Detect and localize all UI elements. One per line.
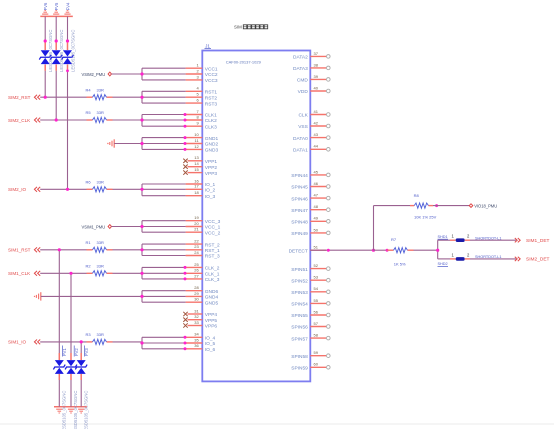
svg-text:33R: 33R [97, 87, 104, 92]
svg-text:R4: R4 [86, 87, 92, 92]
pin 52 SPIN51 [291, 263, 330, 273]
svg-text:21: 21 [194, 227, 199, 232]
svg-text:FV5: FV5 [54, 2, 59, 10]
svg-text:60: 60 [314, 362, 319, 367]
svg-text:LESD5105_0C7SGNC: LESD5105_0C7SGNC [62, 391, 67, 429]
svg-text:16: 16 [194, 178, 199, 183]
svg-text:SPIN52: SPIN52 [291, 278, 308, 284]
svg-text:SPIN58: SPIN58 [291, 354, 308, 360]
wire [112, 73, 143, 75]
TVS diode FV6 LESD5105_0C7SGNC [39, 30, 53, 72]
svg-text:R6: R6 [86, 180, 92, 185]
svg-text:29: 29 [194, 291, 199, 296]
pin 47 SPIN46 [291, 193, 330, 203]
svg-text:VCC_2: VCC_2 [205, 230, 221, 236]
wire [140, 221, 185, 233]
pin 40 VDD [298, 85, 330, 95]
pin 41 CLK [298, 109, 330, 119]
svg-text:14: 14 [194, 161, 199, 166]
pin 43 DATA0 [293, 132, 330, 142]
svg-text:7: 7 [196, 109, 199, 114]
svg-text:SIM2_RST: SIM2_RST [8, 95, 31, 100]
ground [34, 292, 41, 300]
svg-text:CLK3: CLK3 [205, 124, 217, 130]
svg-text:6: 6 [196, 98, 199, 103]
wire [140, 91, 185, 103]
pin 51 DETECT [289, 245, 327, 255]
svg-text:VIO18_PMU: VIO18_PMU [474, 203, 497, 208]
pin 3 VCC3 [186, 74, 218, 84]
svg-text:57: 57 [314, 321, 319, 326]
svg-text:SIM2_DET: SIM2_DET [526, 257, 550, 263]
svg-text:LESD5105_0C7SGNC: LESD5105_0C7SGNC [71, 30, 76, 72]
svg-text:DATA3: DATA3 [293, 66, 308, 72]
svg-text:VPP2: VPP2 [205, 165, 218, 171]
wire DETECT [310, 249, 388, 252]
svg-text:43: 43 [314, 132, 319, 137]
svg-text:10K 1% 25V: 10K 1% 25V [414, 215, 437, 220]
svg-text:GND4: GND4 [205, 295, 219, 301]
pin 18 IO_3 [186, 190, 216, 200]
wire [414, 249, 438, 251]
svg-text:SPIN59: SPIN59 [291, 366, 308, 372]
svg-text:LESD5105_0C7SGNC: LESD5105_0C7SGNC [83, 391, 88, 429]
svg-text:IO_6: IO_6 [205, 347, 216, 353]
wire [113, 188, 143, 190]
svg-text:47: 47 [314, 193, 319, 198]
wire [140, 113, 186, 128]
svg-text:SPIN48: SPIN48 [291, 220, 308, 226]
pin 7 CLK1 [186, 109, 218, 119]
svg-text:DATA0: DATA0 [293, 136, 308, 142]
wire [373, 206, 375, 251]
wire [112, 226, 143, 228]
svg-text:2: 2 [467, 252, 470, 257]
svg-text:R3: R3 [86, 332, 92, 337]
svg-text:VPP3: VPP3 [205, 171, 218, 177]
resistor R1 33R [86, 240, 113, 252]
pin 27 CLK_3 [186, 273, 220, 283]
ferrite bead SHD1 SHORTDOT-L1 [438, 234, 502, 242]
pin 6 RST3 [186, 98, 218, 108]
net label SIM1_DET [515, 238, 550, 244]
svg-text:SIM2_CLK: SIM2_CLK [8, 118, 31, 123]
svg-text:48: 48 [314, 204, 319, 209]
wire [433, 204, 469, 207]
wire [113, 119, 143, 121]
wire [140, 266, 186, 281]
designator FV6 [43, 2, 48, 10]
part number CAF00-20137-1029 [226, 60, 262, 65]
svg-text:38: 38 [314, 62, 319, 67]
pin 59 SPIN58 [291, 350, 330, 360]
pin 37 DATA2 [293, 51, 330, 61]
net label SIM2_CLK [8, 118, 40, 123]
svg-text:SPIN46: SPIN46 [291, 196, 308, 202]
svg-text:IO_4: IO_4 [205, 336, 216, 342]
svg-text:32: 32 [194, 314, 199, 319]
pin 53 SPIN52 [291, 275, 330, 285]
svg-text:LESD5105_0C7SGNC: LESD5105_0C7SGNC [73, 391, 78, 429]
pin 2 VCC2 [186, 68, 218, 78]
svg-text:55: 55 [314, 298, 319, 303]
svg-text:28: 28 [194, 285, 199, 290]
svg-text:2: 2 [196, 68, 199, 73]
svg-text:RST2: RST2 [205, 95, 218, 101]
svg-text:35: 35 [194, 337, 199, 342]
pin 10 GND1 [186, 132, 219, 142]
svg-text:R5: R5 [86, 110, 92, 115]
pin 30 GND5 [186, 297, 219, 307]
pin 17 IO_2 [186, 184, 216, 194]
svg-text:GND6: GND6 [205, 289, 219, 295]
TVS diode FV1 LESD5105_0C7SGNC [53, 346, 67, 429]
wire [55, 16, 58, 120]
svg-text:IO_2: IO_2 [205, 188, 216, 194]
svg-text:R8: R8 [414, 193, 420, 198]
pin 12 GND3 [186, 144, 219, 154]
svg-text:59: 59 [314, 350, 319, 355]
svg-text:J1: J1 [205, 44, 210, 49]
svg-text:SHD2: SHD2 [438, 262, 448, 266]
pin 36 IO_6 [186, 343, 216, 353]
svg-text:13: 13 [194, 155, 199, 160]
svg-text:SIM1_RST: SIM1_RST [8, 248, 31, 253]
pin 21 VCC_2 [186, 227, 221, 237]
svg-text:SPIN45: SPIN45 [291, 185, 308, 191]
pin 45 SPIN44 [291, 169, 330, 179]
wire [0, 423, 554, 425]
pin 24 RST_3 [186, 250, 220, 260]
svg-text:33R: 33R [97, 240, 104, 245]
svg-text:SIM2_IO: SIM2_IO [8, 187, 27, 192]
pin 57 SPIN56 [291, 321, 330, 331]
wire [58, 250, 60, 407]
node FV4 pin2 [66, 69, 69, 72]
designator FV5 [54, 2, 59, 10]
svg-text:RST_3: RST_3 [205, 254, 220, 260]
ground [40, 11, 73, 17]
svg-text:4: 4 [196, 86, 199, 91]
svg-text:33R: 33R [97, 332, 104, 337]
svg-text:CLK_2: CLK_2 [205, 266, 220, 272]
wire [41, 295, 142, 297]
pin 1 VCC1 [186, 63, 218, 73]
svg-text:GND5: GND5 [205, 300, 219, 306]
pin 4 RST1 [186, 86, 218, 96]
svg-text:FV4: FV4 [65, 2, 70, 10]
pin 11 GND2 [186, 138, 219, 148]
svg-text:41: 41 [314, 109, 319, 114]
wire [140, 336, 186, 351]
svg-text:SPIN47: SPIN47 [291, 208, 308, 214]
svg-text:11: 11 [195, 138, 200, 143]
svg-text:VSS: VSS [298, 124, 308, 130]
wire [66, 16, 69, 189]
pin 14 VPP2 [183, 161, 217, 171]
svg-text:SPIN51: SPIN51 [291, 267, 308, 273]
pin 55 SPIN54 [291, 298, 330, 308]
svg-text:SIM1_CLK: SIM1_CLK [8, 271, 31, 276]
wire [40, 96, 86, 99]
wire [140, 244, 185, 255]
wire [470, 258, 516, 260]
svg-text:25: 25 [194, 262, 199, 267]
svg-text:GND3: GND3 [205, 148, 219, 154]
pin 56 SPIN55 [291, 309, 330, 319]
resistor R3 33R [86, 332, 113, 344]
svg-text:DATA1: DATA1 [293, 148, 308, 154]
svg-text:CAF00-20137-1029: CAF00-20137-1029 [226, 60, 262, 65]
svg-text:R2: R2 [86, 264, 92, 269]
svg-text:56: 56 [314, 309, 319, 314]
wire [374, 205, 411, 207]
svg-text:51: 51 [314, 245, 319, 250]
net label SIM1_RST [8, 247, 40, 252]
svg-text:40: 40 [314, 85, 319, 90]
pin 19 VCC_3 [186, 215, 221, 225]
pin 44 DATA1 [293, 144, 330, 154]
svg-text:R7: R7 [391, 237, 397, 242]
svg-text:GND2: GND2 [205, 142, 219, 148]
net label SIM2_RST [8, 95, 40, 100]
svg-text:VPP5: VPP5 [205, 318, 218, 324]
svg-text:19: 19 [194, 215, 199, 220]
svg-text:33R: 33R [97, 264, 104, 269]
wire [113, 341, 143, 343]
wire [80, 342, 82, 407]
svg-text:SPIN44: SPIN44 [291, 173, 308, 179]
pin 58 SPIN57 [291, 333, 330, 343]
pin 16 IO_1 [186, 178, 216, 188]
wire [70, 273, 72, 407]
svg-text:SIM1_DET: SIM1_DET [526, 238, 550, 244]
designator J1 [205, 44, 212, 49]
pin 29 GND4 [186, 291, 219, 301]
net label SIM1_CLK [8, 271, 40, 276]
wire [40, 248, 86, 251]
pin 49 SPIN48 [291, 216, 330, 226]
svg-text:58: 58 [314, 333, 319, 338]
pin 26 CLK_1 [186, 268, 220, 278]
svg-text:IO_5: IO_5 [205, 341, 216, 347]
wire [113, 272, 143, 274]
designator FV4 [65, 2, 70, 10]
svg-text:46: 46 [314, 181, 319, 186]
svg-text:24: 24 [194, 250, 199, 255]
svg-text:44: 44 [314, 144, 319, 149]
wire [40, 118, 86, 121]
svg-text:53: 53 [314, 275, 319, 280]
svg-text:26: 26 [194, 268, 199, 273]
ground [107, 139, 114, 147]
svg-text:SHD1: SHD1 [438, 235, 448, 239]
svg-text:VCC3: VCC3 [205, 78, 218, 84]
TVS diode FV5 LESD5105_0C7SGNC [50, 30, 64, 72]
svg-text:52: 52 [314, 263, 319, 268]
svg-text:37: 37 [314, 51, 319, 56]
svg-text:36: 36 [194, 343, 199, 348]
svg-text:RST3: RST3 [205, 101, 218, 107]
svg-text:SIM: SIM [234, 25, 242, 30]
svg-text:12: 12 [194, 144, 199, 149]
net label SIM2_IO [8, 187, 40, 192]
svg-text:VDD: VDD [298, 89, 309, 95]
svg-text:49: 49 [314, 216, 319, 221]
wire [140, 184, 185, 196]
wire [113, 249, 143, 251]
IC J1 CAF00-20137-1029 [202, 51, 310, 382]
pin 39 CMD [297, 74, 330, 84]
svg-text:FV2: FV2 [74, 348, 79, 356]
svg-text:VCC1: VCC1 [205, 66, 218, 72]
svg-text:CLK1: CLK1 [205, 113, 217, 119]
pin 31 VPP4 [183, 308, 217, 318]
resistor R2 33R [86, 264, 113, 276]
svg-text:45: 45 [314, 169, 319, 174]
svg-text:VPP1: VPP1 [205, 159, 218, 165]
svg-text:23: 23 [194, 244, 199, 249]
resistor R6 33R [86, 180, 113, 192]
net label SIM1_IO [8, 340, 40, 345]
svg-text:1K 5%: 1K 5% [394, 261, 406, 266]
svg-text:VCC_3: VCC_3 [205, 219, 221, 225]
svg-text:SPIN54: SPIN54 [291, 302, 308, 308]
svg-text:FV3: FV3 [84, 348, 89, 356]
svg-text:33: 33 [194, 320, 199, 325]
wire [40, 272, 86, 275]
svg-text:1: 1 [196, 63, 199, 68]
svg-text:42: 42 [314, 120, 319, 125]
svg-text:DATA2: DATA2 [293, 55, 308, 61]
svg-text:1: 1 [452, 234, 455, 239]
svg-text:34: 34 [194, 332, 199, 337]
svg-text:FV6: FV6 [43, 2, 48, 10]
svg-text:33R: 33R [97, 180, 104, 185]
svg-text:15: 15 [194, 167, 199, 172]
svg-text:VSIM2_PMU: VSIM2_PMU [82, 72, 106, 77]
svg-text:50: 50 [314, 227, 319, 232]
svg-text:18: 18 [194, 190, 199, 195]
svg-text:30: 30 [194, 297, 199, 302]
svg-text:CLK_3: CLK_3 [205, 277, 220, 283]
power connector VSIM1_PMU [82, 224, 112, 229]
resistor R4 33R [86, 87, 113, 99]
svg-text:CLK_1: CLK_1 [205, 272, 220, 278]
TVS diode FV4 LESD5105_0C7SGNC [62, 30, 76, 72]
net label SIM2_DET [515, 257, 550, 263]
wire [436, 240, 450, 259]
svg-text:SIM1_IO: SIM1_IO [8, 340, 27, 345]
pin 13 VPP1 [183, 155, 217, 165]
pin 28 GND6 [186, 285, 219, 295]
svg-text:RST1: RST1 [205, 90, 218, 96]
svg-text:SPIN49: SPIN49 [291, 231, 308, 237]
resistor R7 1K 5% [387, 237, 413, 266]
pin 46 SPIN45 [291, 181, 330, 191]
svg-text:9: 9 [196, 121, 199, 126]
ground [54, 407, 87, 413]
wire [140, 291, 185, 303]
pin 8 CLK2 [186, 114, 218, 124]
svg-text:31: 31 [194, 308, 199, 313]
svg-text:SPIN53: SPIN53 [291, 290, 308, 296]
pin 25 CLK_2 [186, 262, 220, 272]
pin 34 IO_4 [186, 332, 216, 342]
svg-text:54: 54 [314, 286, 319, 291]
svg-text:39: 39 [314, 74, 319, 79]
resistor R5 33R [86, 110, 113, 122]
wire [113, 96, 143, 98]
svg-text:RST_2: RST_2 [205, 242, 220, 248]
pin 23 RST_1 [186, 244, 220, 254]
wire [140, 68, 185, 80]
svg-text:CMD: CMD [297, 78, 308, 84]
svg-text:CLK2: CLK2 [205, 118, 217, 124]
TVS diode FV2 LESD5105_0C7SGNC [65, 346, 79, 429]
svg-text:VSIM1_PMU: VSIM1_PMU [82, 224, 106, 229]
svg-text:VCC2: VCC2 [205, 72, 218, 78]
title text [234, 25, 268, 30]
pin 35 IO_5 [186, 337, 216, 347]
pin 50 SPIN49 [291, 227, 330, 237]
svg-text:10: 10 [194, 132, 199, 137]
pin 48 SPIN47 [291, 204, 330, 214]
svg-text:SPIN55: SPIN55 [291, 313, 308, 319]
power connector VSIM2_PMU [82, 72, 112, 77]
svg-text:SPIN57: SPIN57 [291, 336, 308, 342]
pin 32 VPP5 [183, 314, 217, 324]
svg-text:SPIN56: SPIN56 [291, 325, 308, 331]
pin 5 RST2 [186, 92, 218, 102]
wire [140, 136, 186, 151]
svg-text:GND1: GND1 [205, 136, 219, 142]
svg-text:IO_1: IO_1 [205, 182, 216, 188]
pin 20 VCC_1 [186, 221, 221, 231]
wire [40, 188, 86, 191]
pin 54 SPIN53 [291, 286, 330, 296]
ferrite bead SHD2 SHORTDOT-L1 [438, 252, 502, 266]
power connector VIO18_PMU [469, 203, 497, 208]
svg-text:VPP6: VPP6 [205, 324, 218, 330]
svg-text:5: 5 [196, 92, 199, 97]
svg-text:IO_3: IO_3 [205, 194, 216, 200]
svg-text:DETECT: DETECT [289, 248, 308, 254]
pin 60 SPIN59 [291, 362, 330, 372]
svg-text:22: 22 [194, 239, 199, 244]
svg-text:VPP4: VPP4 [205, 312, 218, 318]
svg-text:2: 2 [467, 234, 470, 239]
TVS diode FV3 LESD5105_0C7SGNC [75, 346, 89, 429]
wire [470, 239, 516, 241]
pin 22 RST_2 [186, 239, 220, 249]
svg-text:20: 20 [194, 221, 199, 226]
pin 42 VSS [298, 120, 330, 130]
wire [40, 340, 86, 343]
svg-text:3: 3 [196, 74, 199, 79]
svg-text:17: 17 [194, 184, 199, 189]
wire [114, 143, 142, 145]
svg-text:VCC_1: VCC_1 [205, 225, 221, 231]
svg-text:FV1: FV1 [62, 348, 67, 356]
resistor R8 10K 1% 25V [410, 193, 437, 219]
svg-text:RST_1: RST_1 [205, 248, 220, 254]
svg-text:CLK: CLK [298, 113, 308, 119]
svg-text:1: 1 [452, 252, 455, 257]
pin 15 VPP3 [183, 167, 217, 177]
wire [44, 16, 47, 97]
svg-text:27: 27 [194, 273, 199, 278]
